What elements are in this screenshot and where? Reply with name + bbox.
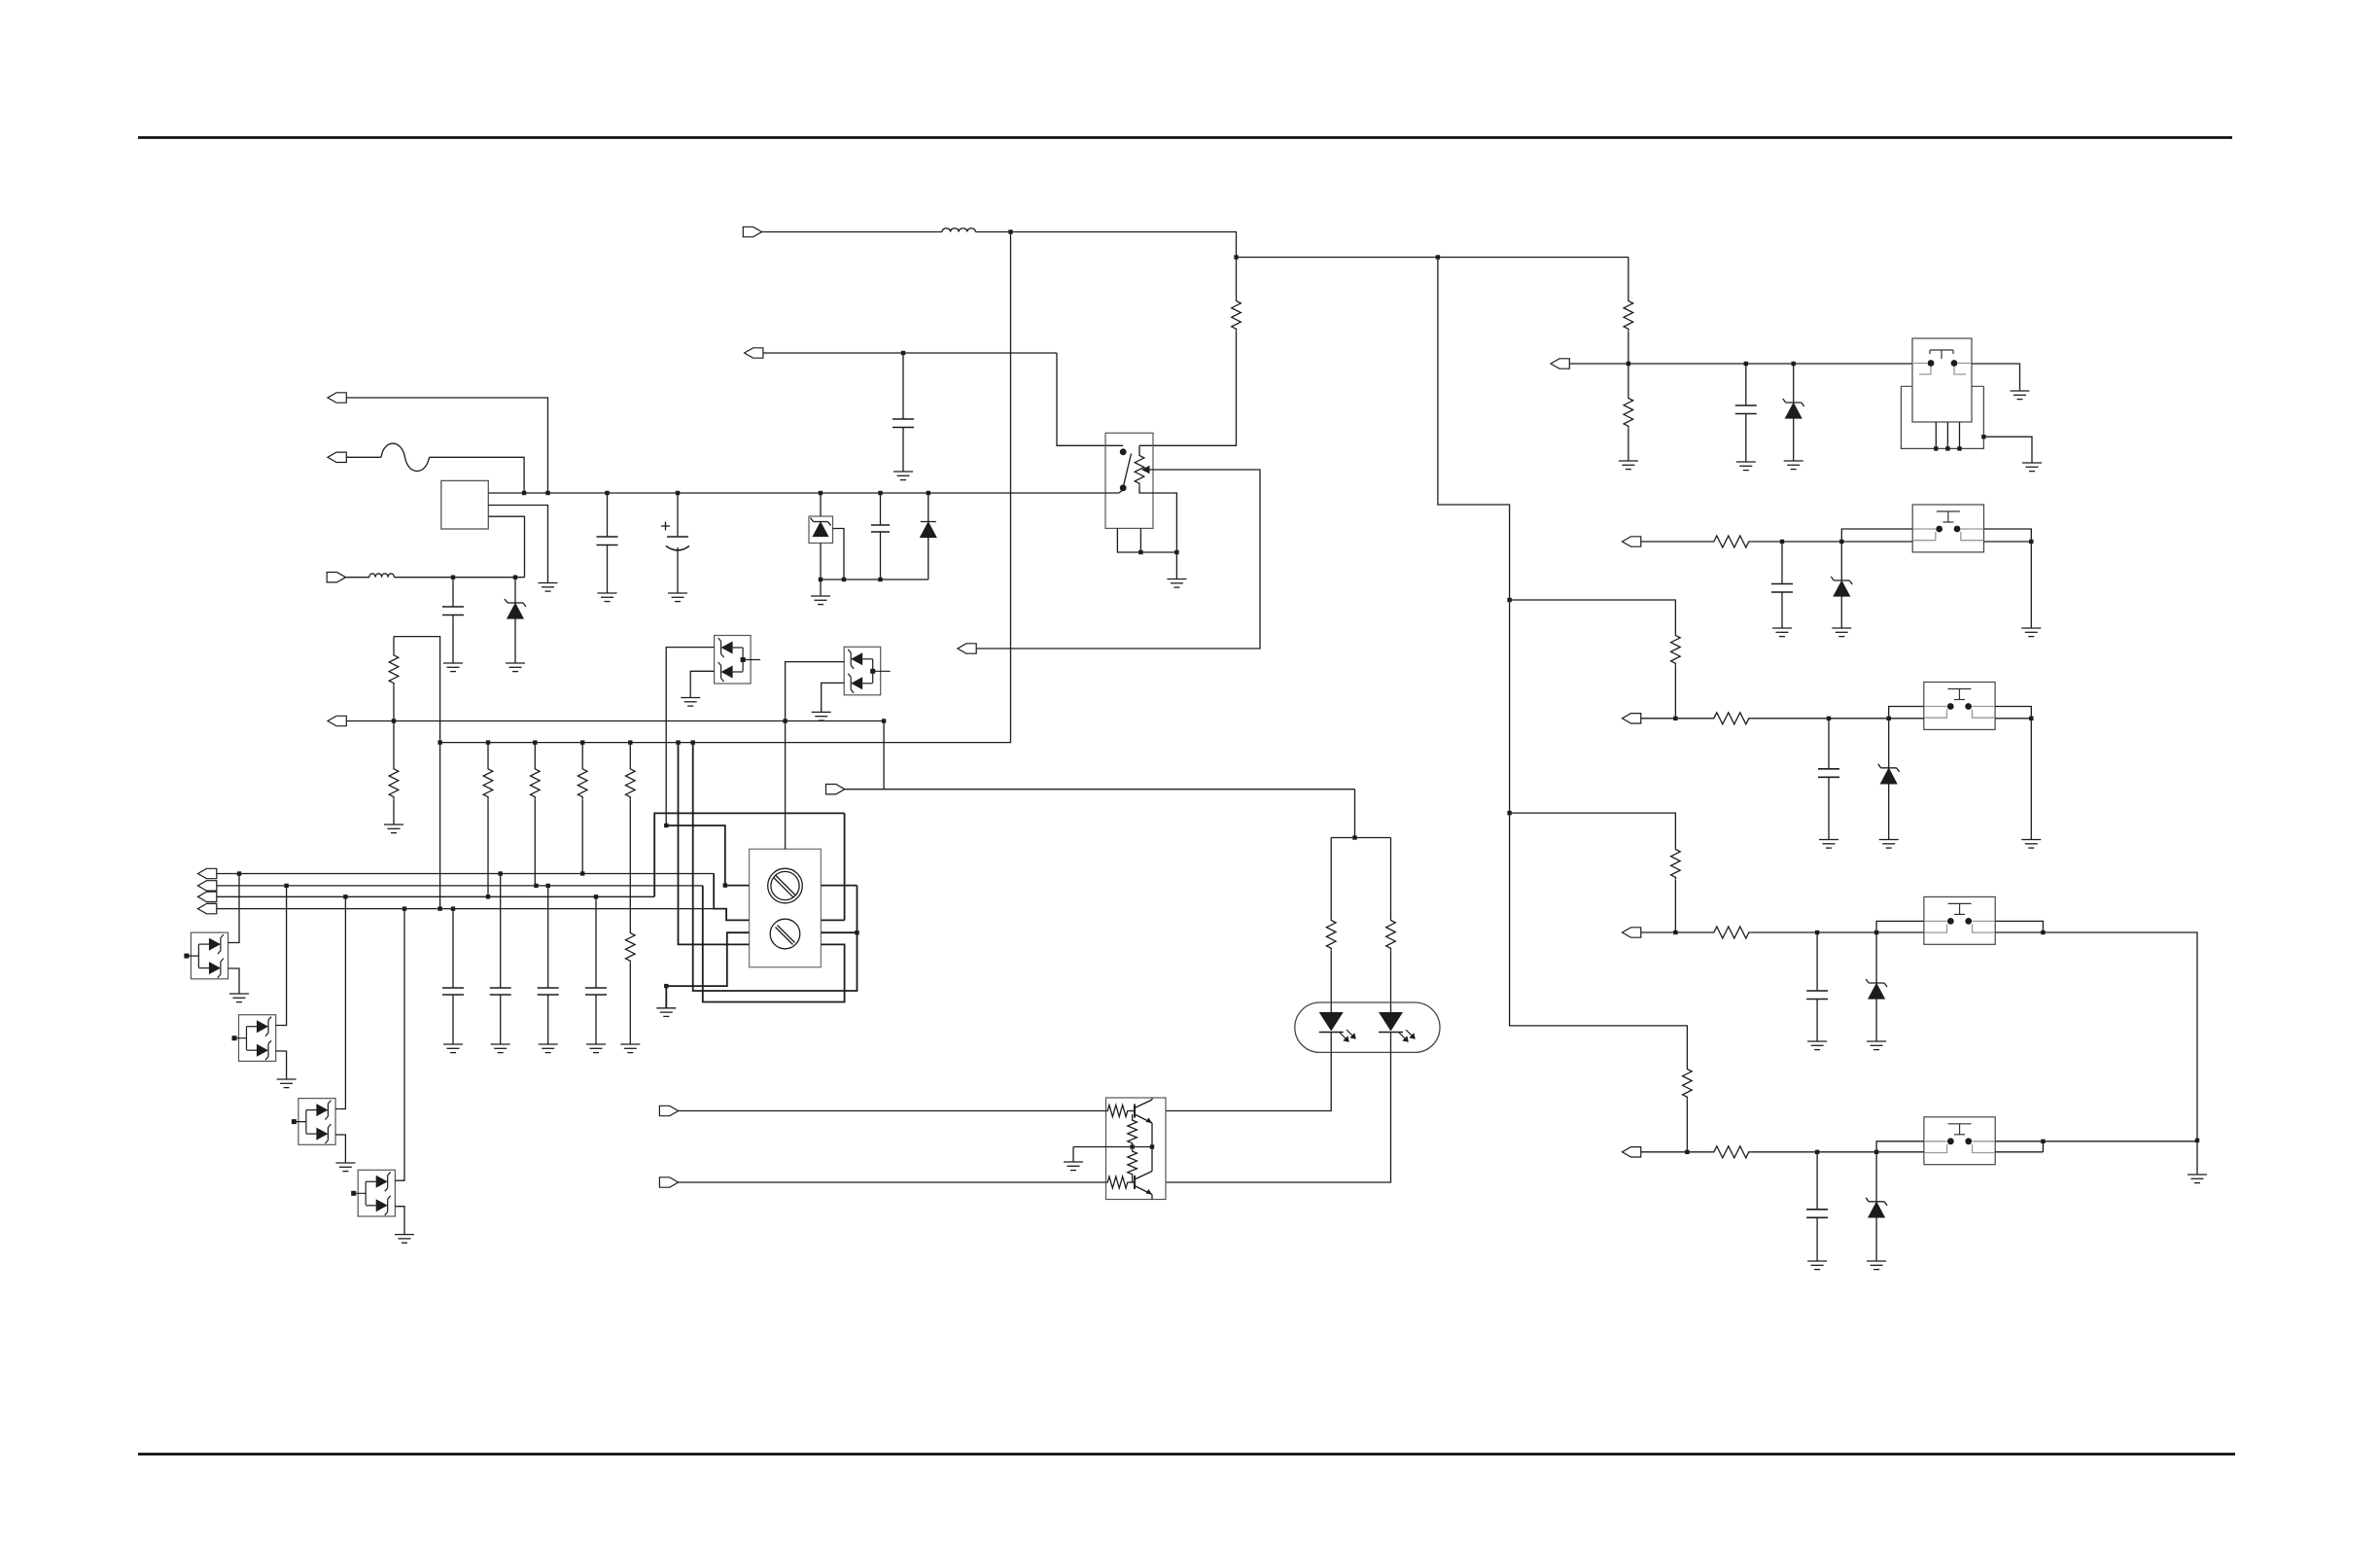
node [522,491,526,495]
TVS array D8 [358,1170,395,1216]
node [580,871,584,875]
wire [1390,838,1392,919]
wire [763,352,1057,354]
wire bus into relay contact [1119,490,1123,494]
ground [506,663,525,672]
wire U4 output rail [1995,718,2031,720]
connector arrow J1-1 [328,393,346,403]
wire T1 pin3 to input 3 net [488,516,524,578]
wire [2030,542,2032,628]
node [486,895,490,898]
resistor R25 (base series 2) [1106,1176,1130,1188]
wire [844,813,846,920]
node [451,576,455,579]
mid bias rail [1073,1146,1152,1148]
ground [1819,840,1838,849]
wire [1175,552,1177,579]
wire [514,578,516,603]
ground [395,1235,414,1244]
connector arrow U5-in [1623,928,1641,937]
ground [384,825,403,833]
node [628,740,632,744]
capacitor U5-C [1806,991,1828,1000]
wire TB1 pin L3 to local ground net [666,932,749,1008]
wire [1888,719,1890,768]
relay coil (zigzag) [1135,453,1144,486]
wire input 3 net [395,577,525,579]
node [723,883,727,887]
inductor L1 [369,574,395,578]
node [2041,931,2045,934]
capacitor C12 [585,988,607,995]
ground [1736,462,1756,471]
connector arrow J6 (drive input 1) [659,1106,678,1115]
relay switch contact A [1120,448,1127,455]
resistor R24 (bias lower) [1128,1149,1137,1176]
connector arrow JA (analog in 1) [1551,359,1569,369]
wire [1752,718,1889,720]
ground [335,1163,355,1172]
zener diode D2 [505,599,526,618]
connector arrow J7 (drive input 2) [659,1177,678,1187]
wire U6 output rail [1995,1151,2043,1153]
node [1839,540,1843,544]
relay wiper arrow [1141,466,1150,474]
ground [656,1008,676,1017]
node [2195,1139,2199,1142]
wire U1 output to ground [1972,364,2020,391]
node [486,740,490,744]
wire coil bottom to ground node [1139,486,1176,552]
wire row4 feed [1510,813,1676,847]
wire U1 pin 3 [1959,422,1961,448]
transformer/filter module T1 [441,480,489,529]
wire [1888,784,1890,840]
node [437,906,441,910]
bus line 4 wire [217,908,714,910]
node relay ground junction [1174,550,1178,554]
wire [1236,258,1238,299]
wire [452,995,454,1044]
ground [598,593,617,602]
connector arrow J3-1 [198,868,217,878]
ground [812,712,831,720]
LED D12 light arrows [1399,1030,1415,1041]
switch module U4 [1924,683,1995,730]
wire [1674,666,1676,719]
resistor R8 (double leg bottom) [626,931,636,964]
wire [1390,951,1392,1012]
capacitor C11 [538,988,559,995]
resistor R6 [483,766,493,799]
terminal screw 2 [770,919,800,949]
wire [679,1181,1106,1183]
optocoupler U2 body (dual LED) [1295,1002,1440,1052]
node [882,719,886,722]
switch module U6 [1924,1117,1995,1165]
connector arrow J1-3 (line input) [327,573,345,582]
node [878,491,882,495]
wire [820,579,822,596]
node [1744,362,1748,366]
wire bus line1 joins line4 staircase to TB1 pin L2 [714,874,749,921]
node [2029,717,2033,720]
wire U6 to shared ground node [2043,1141,2197,1142]
bus line 2 wire [217,885,703,887]
node [1130,1144,1134,1148]
capacitor U3-C [1771,584,1793,593]
wire [1752,1151,1876,1153]
zener diode D20 [1783,399,1804,418]
resistor R2 (divider top) [393,637,395,653]
ground [443,663,463,672]
resistor R20 (LED1 series) [1326,918,1336,951]
zener diode U6-Z [1866,1198,1887,1217]
U1 gray internals [1912,364,1972,375]
ground [1784,461,1803,470]
node [664,984,668,988]
node [513,576,517,579]
node [676,491,680,495]
wire LED2 cathode to driver [1166,1033,1391,1183]
wire [514,618,516,663]
node [1627,362,1630,366]
node [237,871,241,875]
node [499,871,503,875]
node [1827,717,1831,720]
capacitor C9 [442,988,464,995]
node drop tap [1008,229,1012,233]
relay switch blade [1123,454,1131,488]
wire [500,874,502,989]
wire [346,456,381,458]
polarized capacitor C5 plus sign [661,522,670,531]
wire TVS return [335,1135,345,1163]
wire TVS return [395,1207,404,1235]
wire [1745,364,1747,405]
wire [1641,718,1711,720]
fuse F1 [381,443,430,472]
wire [346,577,369,579]
wire rail into module [1889,718,1924,720]
top border rule [138,136,2232,139]
wire sense line [346,720,884,722]
wire step into module [1876,921,1924,932]
wire bridge to bus line 4 [394,637,440,909]
node row4 rail junction [1673,931,1677,934]
wire Q2 emitter stub [1151,1195,1153,1200]
wire rail into module [1876,931,1924,933]
connector arrow U3-in [1623,537,1641,546]
wire TB1 pin R3 stub [821,931,857,933]
node sense tap [392,719,396,722]
ground [1167,579,1186,588]
resistor R11 (divider bottom) [1624,396,1633,429]
node LED feed split [1352,835,1356,839]
main bus wire (switched supply) [488,492,1119,494]
wire [2196,1141,2198,1175]
wire [1354,790,1356,838]
node [1945,446,1949,450]
LED D11 [1319,1012,1344,1032]
wire D3 sense stub [833,529,845,580]
wire [880,532,882,579]
wire [1674,880,1676,932]
ground [1619,461,1638,470]
wire relay bottom stub 2 [1139,528,1141,552]
capacitor C10 [490,988,511,995]
node [2041,1140,2045,1143]
ground [1807,1261,1827,1270]
TVS array D9 [715,636,752,685]
node [284,884,288,888]
TVS array D5 [191,932,227,979]
wire [629,964,631,1044]
wire rail to right section [1237,257,1628,259]
node [546,884,550,888]
node [343,895,347,898]
connector arrow J8 (LED supply) [826,785,845,794]
wire to TB1 pin L1 [666,825,749,886]
capacitor C6 [892,419,914,428]
wire [820,544,822,580]
node row4 feed tap [1507,811,1511,815]
wire [1641,931,1711,933]
wire [534,743,536,767]
wire [1816,932,1818,991]
wire to relay coil top [1139,332,1237,445]
wire [1132,1176,1134,1182]
capacitor C3 [442,607,464,615]
node [664,824,668,827]
terminal screw 1 [768,868,803,903]
node [1780,540,1784,544]
wire U5 output step [1995,921,2043,932]
wire Q1 collector stub [1151,1099,1153,1101]
bus line 3 wire [217,895,654,897]
connector arrow J2 (top supply input) [743,227,761,236]
node [402,906,406,910]
connector arrow J3-4 [198,903,217,913]
wire D9 to terminal field [666,648,714,825]
wire TVS feed [395,909,404,1181]
wire [534,799,536,886]
wire [1793,364,1795,403]
node [1874,931,1878,934]
resistor U3-series [1711,536,1752,547]
zener diode U3-Z [1831,577,1852,596]
wire U1 pin 1 [1935,422,1937,448]
resistor R51 (row5 pull-up) [1683,1067,1693,1100]
wire [487,799,489,896]
relay K1 body [1105,433,1153,528]
node [1887,717,1891,720]
wire [629,799,631,931]
wire [500,995,502,1044]
wire [393,685,395,766]
resistor U5-series [1711,927,1752,938]
node [594,895,598,898]
node [927,491,930,495]
connector arrow J1-2 (fused input) [328,452,346,462]
node [1792,362,1796,366]
wire row3 feed [1510,600,1676,633]
capacitor U6-C [1806,1210,1828,1218]
wire Q1 emitter down [1151,1123,1153,1147]
transistor Q2 (NPN) [1130,1172,1153,1195]
wire [1330,838,1332,919]
switch module U3 [1912,505,1983,552]
node cap tap [901,351,905,355]
wire U4 output step [1995,707,2031,719]
resistor R10 [1232,298,1242,332]
ground [811,596,830,605]
wire [1840,542,1842,580]
wire [1627,258,1629,299]
node [1874,1150,1878,1154]
wire [595,995,597,1044]
connector arrow U6-in [1623,1147,1641,1157]
wire U3 output step [1984,529,2032,542]
wire [883,721,885,790]
wire [452,578,454,607]
ground [277,1079,297,1088]
wire step into module [1889,707,1924,719]
ground [2022,463,2042,472]
wire [1641,541,1711,543]
wire [927,538,929,580]
wire [1875,1152,1877,1202]
TVS array D10 [844,647,881,695]
wire to relay switch contact [1057,353,1123,445]
LED D12 [1379,1012,1403,1032]
resistor R9 (divider top) [1624,298,1633,332]
wire top rail to corner [976,232,1237,258]
wire T1 pin2 to ground [488,506,547,583]
resistor R23 (bias upper) [1128,1118,1137,1145]
node [819,578,822,581]
wire [452,615,454,664]
wire fuse to bus [430,457,525,493]
wire step into module [1841,529,1912,542]
capacitor U4-C [1818,769,1839,778]
wire [1627,364,1629,396]
wire [1686,1100,1688,1152]
wire [902,353,904,419]
ground [1867,1261,1886,1270]
connector arrow J9 (wiper sense) [958,644,976,653]
wire [1627,332,1629,364]
connector arrow J5 (relay control) [745,348,763,358]
wire bracket to ground [1983,437,2032,463]
wire U1 pin 2 [1946,422,1948,448]
node row3 feed tap [1507,598,1511,602]
wire U5 return to shared ground [2043,932,2197,1141]
wire [1828,719,1830,769]
wire [880,493,882,525]
wire D10 to sense line [786,662,845,721]
wire [1828,777,1830,839]
wire [1875,1217,1877,1261]
wire TVS return [276,1051,287,1079]
ground [2021,840,2041,849]
resistor R5 [531,766,541,799]
ground [1832,628,1851,637]
node [1150,1144,1154,1148]
ground [491,1044,510,1053]
ground [2187,1175,2207,1183]
terminal block TB1 body [750,849,822,967]
wire D9 return [690,671,714,697]
wire [487,743,489,767]
node [2029,540,2033,544]
ground [620,1044,640,1053]
wire suppressor return rail [821,579,928,580]
wire [1840,596,1842,628]
connector arrow U4-in [1623,714,1641,723]
ground [681,698,700,707]
TVS suppressor D3 (boxed zener) [809,516,833,544]
resistor R21 (LED2 series) [1386,918,1396,951]
wire [1816,1152,1818,1210]
ground [586,1044,606,1053]
wire ground stub [1072,1147,1074,1163]
wire U5 output rail [1995,931,2043,933]
node [534,884,538,888]
node [580,740,584,744]
node [783,719,787,722]
wire TB1 pin R2 stub [821,919,844,921]
node row5 rail junction [1685,1150,1689,1154]
wire [1641,1151,1711,1153]
ground [1807,1041,1827,1050]
wire Q2 collector to mid rail [1151,1147,1153,1172]
zener diode U5-Z [1866,979,1887,999]
resistor R22 (base series) [1106,1106,1130,1117]
ground [1772,628,1792,637]
wire rail into module [1841,541,1912,543]
inductor L2 [942,228,975,232]
wire U6 output step [1995,1141,2043,1142]
wire [679,1110,1106,1112]
wire LED1 cathode to driver [1166,1033,1331,1111]
wire [1816,1217,1818,1261]
transistor pair Q1/Q2 body [1106,1098,1167,1200]
node [533,740,537,744]
resistor R31 (row3 pull-up) [1671,633,1681,666]
U1 contact dots [1928,360,1935,367]
wire [607,545,609,594]
node [545,491,549,495]
wire [820,493,822,516]
wire TVS return [228,968,239,994]
node row3 rail junction [1673,717,1677,720]
wire long drop from top rail to ladder rail [440,232,1011,743]
wire coil top stub [1138,445,1140,453]
wire [607,493,609,537]
wire rail into module [1876,1151,1924,1153]
wire [1627,429,1629,461]
node [437,740,441,744]
node [842,578,846,581]
ground [443,1044,463,1053]
wire [1745,414,1747,463]
wire [629,743,631,767]
node [819,491,822,495]
node [855,931,858,934]
node [605,491,609,495]
node [878,578,882,581]
